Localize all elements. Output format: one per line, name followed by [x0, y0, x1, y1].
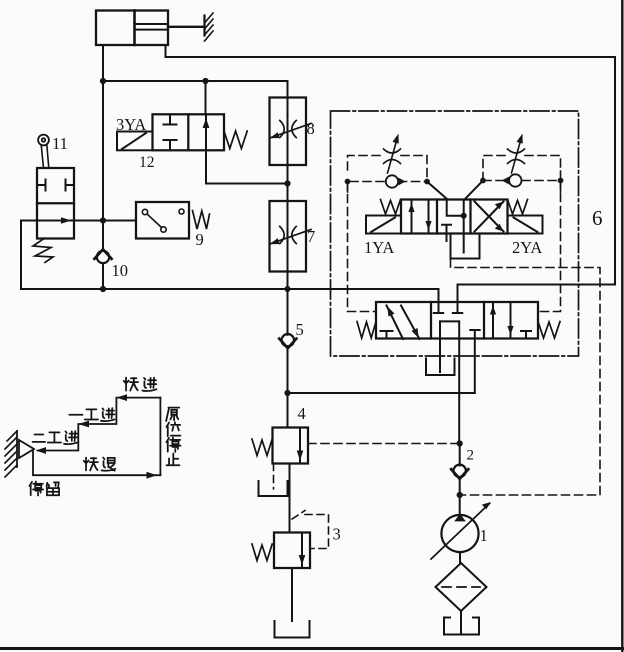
throttle valve 7 body [270, 201, 307, 272]
node at (287.5,183.5) [284, 180, 290, 186]
throttle valve 7 arcs and arrow [270, 227, 312, 245]
filter [436, 552, 487, 611]
node at (205.5,81) [202, 78, 208, 84]
wire: valve 12 down and right to valve 8 line [206, 150, 288, 183]
throttle valve 8 line through [287, 98, 289, 166]
svg-text:5: 5 [296, 320, 304, 339]
node at (287.5,393) [284, 390, 290, 396]
pump 1 [431, 495, 491, 559]
text 原位停止 (vertical) [166, 408, 180, 466]
main valve right port mark [521, 331, 531, 339]
throttle valve 7 line through [287, 201, 289, 272]
wire: into valve 4 [287, 393, 289, 428]
valve 12 solenoid box [117, 132, 153, 151]
pilot valve right position cross arrows [475, 202, 504, 232]
main valve left port mark [381, 331, 393, 339]
cylinder rod stem [168, 26, 204, 28]
svg-text:10: 10 [112, 261, 129, 280]
node pilot centre [461, 213, 467, 219]
text 二工进 [33, 431, 78, 444]
svg-text:11: 11 [52, 134, 68, 153]
svg-text:8: 8 [307, 119, 315, 138]
cycle path 二工进 segment [36, 424, 79, 454]
pilot choke right throttle [508, 134, 525, 174]
pilot line diagonal right [465, 181, 484, 200]
node at (103,289) [100, 286, 106, 292]
drain dashed line to tank [451, 259, 601, 495]
cylinder body [96, 11, 168, 46]
pilot choke left throttle [384, 134, 401, 174]
svg-text:6: 6 [592, 206, 603, 230]
cylinder piston [133, 11, 136, 46]
sequence valve 3 dashed pilot [292, 511, 329, 549]
wire: valve 8 to valve 7 [287, 165, 289, 201]
throttle valve 8 body [270, 98, 307, 166]
pressure switch 9 spring [193, 211, 210, 230]
sequence valve 3 spring [252, 544, 272, 561]
svg-text:9: 9 [196, 230, 204, 249]
main valve left spring [357, 322, 376, 339]
valve 12 flow arrow (right square) [203, 114, 210, 150]
pilot choke left dashed box [348, 156, 428, 193]
valve 4 drain tank [259, 481, 288, 496]
wire: corner into throttle 8 [287, 81, 289, 98]
pilot valve drain line into pocket [463, 234, 465, 253]
node at (347.5,181.5) [345, 179, 351, 185]
svg-text:7: 7 [307, 227, 315, 246]
valve 12 spring [224, 131, 247, 149]
wire: y=393 to main valve port [288, 330, 475, 393]
main valve centre bottom port mark [470, 329, 479, 331]
wire: valve 7 down to main line [287, 272, 289, 290]
main valve centre pocket [440, 320, 459, 322]
frame border right [621, 0, 623, 652]
pilot choke right check ball [502, 174, 522, 186]
stop valve 11 body [37, 168, 74, 239]
pilot valve body [401, 200, 508, 234]
svg-text:3: 3 [333, 525, 341, 544]
reducing valve 4 spring [252, 439, 272, 456]
pressure switch 9 contacts [142, 209, 184, 232]
check valve 5 [279, 334, 296, 348]
text 停留 [29, 481, 59, 495]
wire: pressure line to pump [458, 321, 460, 443]
wire: valve 12 up to rail [205, 81, 207, 114]
cycle path 快退 segment [33, 451, 160, 479]
pilot valve centre position [442, 200, 464, 242]
wire: line R rod side (y=284.5) [458, 285, 616, 303]
stop valve 11 flow arrow [37, 217, 74, 224]
dashed pilot vertical left to main valve [348, 182, 376, 312]
valve 4 drain dashed [273, 464, 275, 490]
stop valve 11 blocked ports [37, 180, 74, 191]
svg-text:2YA: 2YA [512, 238, 542, 257]
main valve centre top port marks [434, 302, 462, 313]
wire: left vertical x=103 to check valve 10 [102, 221, 104, 290]
svg-text:2: 2 [467, 448, 475, 464]
pilot line diagonal left [427, 182, 448, 200]
valve 3 tank [275, 621, 310, 638]
reducing valve 4 flow arrow [297, 428, 304, 464]
pilot valve left solenoid 1YA [366, 216, 401, 234]
node at (427,181.5) [424, 179, 430, 185]
pressure switch 9 body [136, 202, 189, 239]
wire: right rail vertical [614, 57, 616, 285]
text 快退 [84, 458, 116, 471]
node at (483,180.5) [480, 178, 486, 184]
reducing valve 4 body [273, 428, 309, 464]
svg-text:12: 12 [139, 154, 155, 171]
dashed pilot line valve 4 to node [308, 443, 460, 445]
main valve left position diagonal arrows [387, 306, 420, 340]
frame border bottom [0, 647, 624, 650]
svg-text:1: 1 [480, 526, 488, 545]
pilot valve right spring [508, 200, 528, 215]
node at (103,220.5) [100, 217, 106, 223]
check valve 10 [94, 249, 111, 263]
sequence valve 3 body [274, 533, 310, 569]
pump tank [444, 611, 479, 635]
cycle diagram wall hatching [5, 431, 17, 477]
stop valve 11 roller [38, 135, 49, 146]
node at (459.7,495) [457, 492, 463, 498]
main valve right spring [538, 322, 560, 339]
main valve drain into pocket [439, 321, 441, 372]
text 快进 [124, 378, 157, 391]
wire: main line A y=289 [103, 289, 439, 302]
wire: valve 4 outlet down [289, 464, 291, 533]
wire: cylinder right port to right rail [166, 45, 616, 57]
pilot valve left position arrows [408, 200, 431, 234]
svg-text:4: 4 [298, 404, 306, 423]
cycle diagram slider triangle [19, 440, 34, 458]
cycle path 一工进 segment [78, 398, 116, 428]
throttle valve 8 arcs and arrow [270, 121, 312, 139]
wire: rail y=81 [103, 80, 288, 82]
wire: left vertical x=103 upper [102, 81, 104, 221]
wire: valve 3 outlet down [291, 568, 293, 621]
pilot choke left check ball [386, 175, 406, 187]
anchor wall with hatching [205, 13, 214, 41]
node at (459.7,443.5) [457, 440, 463, 446]
text 一工进 [69, 408, 114, 421]
dashed pilot vertical right to main valve [538, 181, 561, 312]
main valve body [376, 302, 538, 339]
node at (103,81) [100, 78, 106, 84]
wire: down to check valve 5 [287, 289, 289, 393]
stop valve 11 spring [33, 239, 53, 263]
svg-text:1YA: 1YA [364, 238, 394, 257]
cylinder rod (double line inside) [135, 24, 169, 30]
main valve tank pocket below [426, 359, 455, 376]
wire: cylinder left port down [102, 45, 104, 81]
manifold box 6 (chain line) [331, 111, 579, 356]
valve 12 blocked ports (left square) [164, 114, 177, 150]
main valve right position arrows [490, 302, 514, 339]
pilot choke right dashed box [483, 156, 561, 193]
valve 12 body [153, 114, 225, 150]
sequence valve 3 flow arrow [299, 533, 306, 569]
wire: valve 11 left loop down [21, 221, 103, 290]
node at (560.5,180.5) [558, 178, 564, 184]
stop valve 11 stem [41, 144, 49, 168]
node at (287.5,289) [285, 286, 291, 292]
check valve 2 [451, 444, 468, 496]
cycle path 快进 segment [116, 394, 160, 401]
svg-text:3YA: 3YA [116, 115, 146, 134]
pilot valve right solenoid 2YA [508, 216, 543, 234]
pilot valve tank pocket [451, 236, 480, 259]
pilot valve left spring [381, 200, 401, 215]
wire: stub to switch 9 [74, 220, 136, 222]
cycle path right vertical [159, 398, 161, 476]
